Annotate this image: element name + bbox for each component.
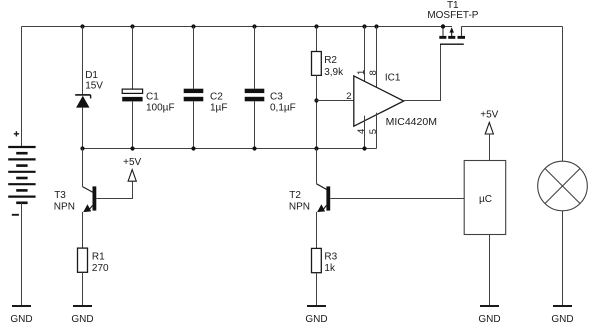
wire R2 to middle rail (316, 75, 318, 148)
svg-text:D1: D1 (85, 70, 98, 81)
node pin4 bottom (362, 146, 366, 150)
battery BT1 (8, 147, 35, 203)
ground (R3) (305, 306, 327, 323)
svg-text:GND: GND (551, 314, 573, 323)
wire IC1 output to T1 gate (404, 44, 441, 100)
node R2 middle rail (314, 146, 318, 150)
wire +5V arrow to uC (489, 134, 491, 161)
svg-text:MIC4420M: MIC4420M (386, 116, 437, 128)
transistor T1 MOSFET-P (439, 27, 465, 45)
svg-text:1µF: 1µF (210, 102, 227, 113)
resistor R3 (312, 248, 322, 272)
wire pin 2 input (317, 100, 355, 102)
microcontroller uC block (464, 161, 506, 235)
ground (battery) (10, 306, 32, 323)
ground (R1) (71, 306, 93, 323)
wire T2 emitter to R3 (316, 212, 318, 249)
wire R1 to ground (82, 272, 84, 305)
label R2 3,9k (324, 55, 344, 78)
+5V arrow (T3) (128, 170, 136, 182)
capacitor C3 (245, 89, 265, 102)
wire C2 to middle rail (193, 101, 195, 148)
wire lamp to ground (562, 211, 564, 305)
svg-text:+5V: +5V (123, 157, 141, 168)
wire top rail to D1 (82, 27, 84, 95)
capacitor C2 (184, 89, 204, 102)
battery plus label (14, 131, 19, 136)
wire T2 base to uC (330, 198, 464, 200)
label D1 15V (85, 70, 103, 92)
transistor T3 NPN (83, 186, 97, 212)
wire T3 collector (82, 149, 84, 187)
svg-text:4: 4 (356, 129, 367, 134)
wire battery plus lead (21, 27, 23, 148)
+5V arrow (uC) (485, 122, 493, 134)
node D1 top (80, 24, 84, 28)
wire battery to ground (21, 203, 23, 305)
svg-text:C2: C2 (210, 91, 223, 102)
wire C1 to middle rail (132, 101, 134, 148)
node pin2 junction (314, 98, 318, 102)
svg-text:T2: T2 (289, 190, 301, 201)
wire top rail to C1 (132, 27, 134, 90)
svg-text:T3: T3 (54, 190, 66, 201)
node pin1 top (362, 24, 366, 28)
wire T3 emitter to R1 (82, 212, 84, 248)
svg-text:C3: C3 (270, 91, 283, 102)
label T2 NPN (289, 190, 310, 212)
svg-text:+5V: +5V (480, 110, 498, 121)
wire pin 5 (376, 113, 378, 149)
wire top rail to lamp (562, 27, 564, 162)
wire R3 to ground (316, 273, 318, 305)
wire D1 to middle rail (82, 108, 84, 149)
svg-text:GND: GND (305, 314, 327, 323)
wire middle +5V rail (83, 148, 377, 150)
svg-text:NPN: NPN (54, 201, 75, 212)
wire uC to ground (489, 235, 491, 306)
svg-text:MOSFET-P: MOSFET-P (427, 10, 478, 21)
node C3 bottom (252, 146, 256, 150)
label R3 1k (324, 251, 337, 273)
wire pin 1 (364, 27, 366, 87)
node C3 top (252, 24, 256, 28)
node C1 bottom (130, 146, 134, 150)
svg-text:R1: R1 (92, 251, 105, 262)
svg-text:270: 270 (92, 263, 109, 274)
label C1 100uF (146, 91, 175, 113)
node R2 top (314, 24, 318, 28)
capacitor C1 electrolytic (122, 89, 142, 101)
svg-text:R2: R2 (324, 55, 337, 66)
wire T3 base to +5V arrow (96, 181, 132, 198)
svg-text:0,1µF: 0,1µF (270, 102, 296, 113)
svg-text:GND: GND (71, 314, 93, 323)
svg-text:100µF: 100µF (146, 102, 175, 113)
svg-text:C1: C1 (146, 91, 159, 102)
svg-text:µC: µC (479, 194, 492, 205)
node C2 bottom (191, 146, 195, 150)
node C2 top (191, 24, 195, 28)
diode D1 zener (75, 95, 90, 108)
label R1 270 (92, 251, 109, 274)
wire pin 4 (364, 116, 366, 149)
node C1 top (130, 24, 134, 28)
wire C3 to middle rail (254, 101, 256, 148)
svg-text:IC1: IC1 (385, 72, 401, 83)
svg-text:GND: GND (10, 314, 32, 323)
node D1 bottom (80, 146, 84, 150)
wire top rail to R2 (316, 27, 318, 52)
svg-text:GND: GND (478, 314, 500, 323)
label T3 NPN (54, 190, 75, 212)
label C3 0,1uF (270, 91, 296, 113)
node T1 source (441, 24, 445, 28)
svg-text:1k: 1k (324, 263, 336, 274)
ground (uC) (478, 306, 500, 323)
transistor T2 NPN (317, 184, 331, 212)
svg-text:15V: 15V (85, 81, 103, 92)
svg-text:3,9k: 3,9k (324, 67, 344, 78)
wire top rail to C3 (254, 27, 256, 89)
node pin8 top (374, 24, 378, 28)
wire T2 collector (316, 149, 318, 184)
wire pin 8 (376, 27, 378, 90)
svg-text:R3: R3 (324, 251, 337, 262)
battery minus label (12, 214, 19, 216)
resistor R1 (78, 248, 88, 272)
svg-text:1: 1 (356, 70, 367, 75)
ground (lamp) (551, 306, 573, 323)
lamp LA1 (538, 161, 588, 211)
wire top rail right segment (462, 26, 563, 28)
resistor R2 (312, 52, 322, 76)
wire top rail (22, 26, 453, 28)
svg-text:8: 8 (368, 70, 379, 75)
label C2 1uF (210, 91, 227, 113)
wire top rail to C2 (193, 27, 195, 89)
svg-text:NPN: NPN (289, 201, 310, 212)
svg-text:5: 5 (368, 129, 379, 134)
op-amp IC1 driver triangle (354, 76, 404, 126)
svg-text:2: 2 (346, 91, 351, 102)
